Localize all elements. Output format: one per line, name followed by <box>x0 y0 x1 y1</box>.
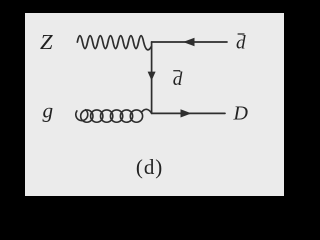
boson Z wavy line <box>77 36 151 50</box>
gluon g coil lead-in <box>76 110 88 121</box>
paper background <box>25 13 284 196</box>
arrow right (bottom line) <box>181 109 192 117</box>
wire bottom-right fermion line <box>152 112 225 114</box>
arrow left (top line) <box>183 38 195 46</box>
arrow down (vertical line) <box>148 72 156 81</box>
overbar of anti-d (top right) <box>238 33 245 35</box>
wire vertical fermion line <box>151 42 153 113</box>
svg-text:g: g <box>43 99 54 123</box>
overbar of anti-d (middle) <box>173 70 180 72</box>
gluon g coil <box>81 110 93 122</box>
gluon g coil tail <box>142 109 152 113</box>
svg-text:D: D <box>233 103 249 125</box>
svg-text:Z: Z <box>40 30 53 54</box>
svg-text:(d): (d) <box>136 155 162 179</box>
svg-text:d: d <box>236 33 246 53</box>
svg-text:d: d <box>173 70 183 90</box>
wire top-right fermion line <box>152 41 227 43</box>
